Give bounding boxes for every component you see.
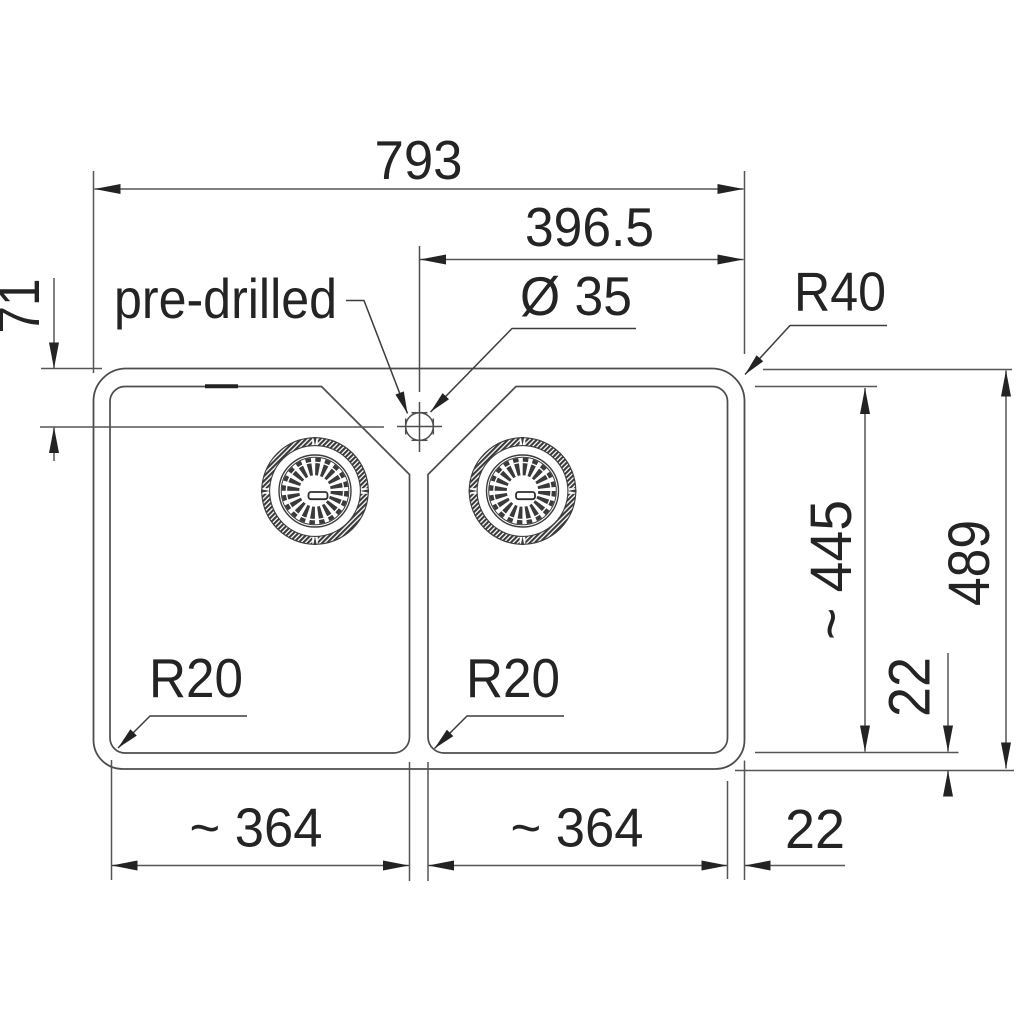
svg-text:22: 22 bbox=[785, 798, 845, 860]
dimension ~364 right: arrows bbox=[428, 861, 454, 871]
svg-text:489: 489 bbox=[937, 520, 1002, 606]
dimension 22 (right side): dimension line segments bbox=[947, 653, 949, 752]
dimension 489: extension lines bbox=[763, 369, 1012, 371]
svg-text:~ 364: ~ 364 bbox=[511, 797, 644, 859]
dimension 396.5: arrows bbox=[420, 255, 446, 265]
dimension ~364 left: arrows bbox=[112, 861, 138, 871]
dimension ~364 right: dimension line bbox=[428, 865, 728, 867]
dimension 793: extension lines bbox=[93, 171, 95, 373]
svg-text:Ø 35: Ø 35 bbox=[520, 265, 632, 327]
dimension 489: dimension line bbox=[1005, 371, 1007, 769]
dimension 71: dimension line segments bbox=[53, 278, 55, 369]
svg-text:~ 364: ~ 364 bbox=[190, 797, 323, 859]
svg-text:R20: R20 bbox=[149, 647, 243, 709]
svg-text:396.5: 396.5 bbox=[525, 196, 654, 258]
dimension 793: dimension line bbox=[95, 188, 744, 190]
pre-drilled tap hole bbox=[397, 402, 442, 452]
svg-text:22: 22 bbox=[878, 657, 943, 717]
bottom extension lines bbox=[111, 760, 113, 880]
dimension ~445: arrows bbox=[860, 388, 870, 414]
vertical centerline above hole bbox=[419, 246, 421, 392]
left bowl overflow mark (thick dash on top edge) bbox=[205, 384, 238, 388]
dimension 396.5: dimension line bbox=[420, 259, 744, 261]
dimension 71: arrows bbox=[49, 343, 59, 369]
dimension 793: arrows bbox=[95, 184, 121, 194]
sink outer outline bbox=[94, 369, 745, 770]
dimension 22 bottom: arrow bbox=[745, 861, 771, 871]
svg-text:pre-drilled: pre-drilled bbox=[114, 267, 337, 330]
right bowl outline bbox=[428, 387, 728, 754]
dimension 22 (right side): arrows bbox=[943, 726, 953, 752]
left drain strainer bbox=[261, 437, 370, 546]
dimension ~445: extension lines bbox=[755, 386, 877, 388]
svg-text:R40: R40 bbox=[794, 261, 886, 323]
svg-text:793: 793 bbox=[375, 129, 463, 191]
dimension ~364 left: dimension line bbox=[112, 865, 410, 867]
svg-text:~ 445: ~ 445 bbox=[799, 500, 864, 640]
right drain strainer bbox=[468, 437, 577, 546]
dimension 22 bottom: dimension line tail bbox=[745, 865, 846, 867]
dimension 71: extension lines bbox=[41, 368, 102, 370]
left bowl outline bbox=[110, 387, 410, 754]
svg-text:R20: R20 bbox=[466, 647, 560, 709]
svg-text:71: 71 bbox=[0, 279, 52, 334]
dimension 489: arrows bbox=[1001, 371, 1011, 397]
dimension ~445: dimension line bbox=[864, 388, 866, 752]
